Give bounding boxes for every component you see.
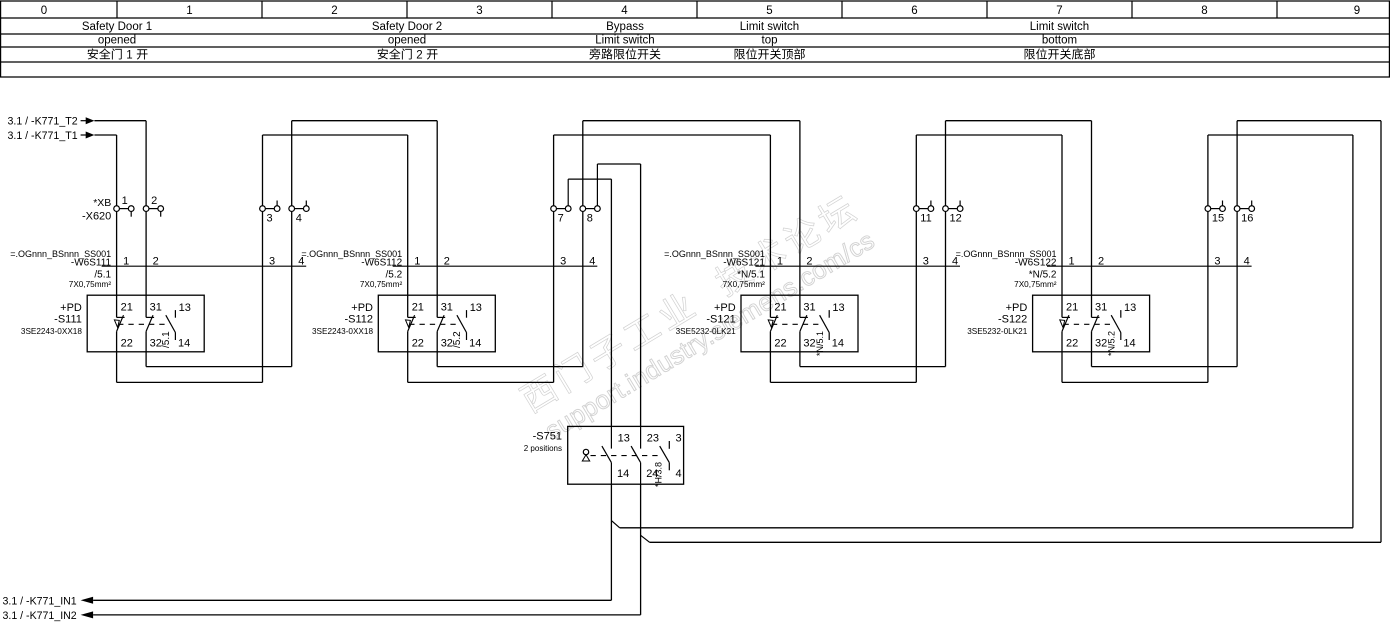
switch S111 linkage [118, 323, 170, 325]
S751 NO contact 23-24 [640, 426, 642, 448]
wire S111 return 3 vertical [262, 135, 264, 382]
junction jog IN2 [641, 535, 650, 542]
wire T2 chain link 2 [583, 120, 800, 122]
svg-text:/5.1: /5.1 [94, 270, 111, 281]
svg-text:8: 8 [1201, 5, 1207, 17]
svg-text:+PD: +PD [60, 302, 82, 314]
svg-text:4: 4 [296, 213, 302, 225]
svg-text:1: 1 [126, 50, 132, 62]
junction jog IN1 [611, 521, 619, 528]
svg-text:*N/5.1: *N/5.1 [737, 270, 765, 281]
wire T1 return bottom [620, 527, 1353, 529]
wire S112 return 4 vertical [582, 121, 584, 367]
wire S112 input 2 vertical [436, 121, 438, 296]
svg-text:22: 22 [412, 337, 424, 349]
svg-text:2: 2 [416, 50, 422, 62]
svg-text:bottom: bottom [1042, 35, 1077, 47]
switch S122 NC contact 31-32 [1091, 295, 1093, 317]
svg-text:3.1 / -K771_IN2: 3.1 / -K771_IN2 [3, 610, 77, 622]
svg-text:Bypass: Bypass [606, 21, 644, 33]
svg-text:-S112: -S112 [344, 314, 373, 326]
svg-text:3: 3 [1214, 255, 1220, 267]
svg-text:Limit switch: Limit switch [740, 21, 799, 33]
svg-text:22: 22 [774, 337, 786, 349]
wire S112 return 3 vertical [553, 135, 555, 382]
wire T2 to S111.2 [94, 120, 146, 122]
wire S111 bottom link 22-to-3 [117, 381, 263, 383]
svg-text:opened: opened [98, 35, 136, 47]
svg-text:/5.2: /5.2 [452, 331, 463, 348]
watermark [517, 191, 879, 447]
header column dividers [116, 1, 118, 18]
svg-text:1: 1 [123, 255, 129, 267]
wire S121 bottom link 22-to-3 [770, 381, 916, 383]
svg-text:31: 31 [1095, 302, 1107, 314]
svg-text:*H/3.8: *H/3.8 [654, 462, 664, 487]
wire S121 input 1 vertical [769, 135, 771, 295]
wire T1 chain link 2 [554, 134, 771, 136]
svg-text:21: 21 [121, 302, 133, 314]
svg-text:top: top [762, 35, 778, 47]
svg-text:-S751: -S751 [533, 431, 562, 443]
svg-text:-W6S121: -W6S121 [723, 257, 765, 268]
wire T1 chain link 1 [263, 134, 408, 136]
terminal X620 pin 15 [1205, 206, 1211, 212]
wire pin7 tap to S751.13 [610, 179, 612, 426]
wire S121 return 3 vertical [915, 135, 917, 382]
wire S111 bottom link 32-to-4 [146, 366, 292, 368]
svg-text:21: 21 [774, 302, 786, 314]
arrow IN2 [81, 611, 94, 618]
svg-text:3.1 / -K771_T2: 3.1 / -K771_T2 [8, 116, 78, 128]
wire S121 contact 22 exit [769, 352, 771, 383]
svg-text:5: 5 [766, 5, 772, 17]
wire T1 to S111.1 [94, 134, 116, 136]
header cn limit switch bottom [1025, 48, 1095, 59]
svg-text:7X0,75mm²: 7X0,75mm² [1014, 280, 1057, 289]
svg-text:11: 11 [920, 213, 931, 225]
svg-text:4: 4 [1244, 255, 1250, 267]
svg-text:3SE5232-0LK21: 3SE5232-0LK21 [676, 327, 737, 336]
svg-text:14: 14 [1123, 337, 1135, 349]
svg-text:22: 22 [121, 337, 133, 349]
terminal X620 pin 2 [143, 206, 149, 212]
svg-text:0: 0 [41, 5, 47, 17]
wire IN1 [93, 599, 611, 601]
svg-text:*XB: *XB [93, 197, 111, 209]
svg-text:21: 21 [1066, 302, 1078, 314]
cable W6S112 [393, 265, 598, 267]
svg-text:*N/5.2: *N/5.2 [1029, 270, 1057, 281]
svg-text:3: 3 [560, 255, 566, 267]
svg-text:4: 4 [676, 468, 682, 480]
svg-text:6: 6 [911, 5, 917, 17]
switch S122 NO contact 13-14 [1120, 310, 1122, 318]
svg-text:1: 1 [186, 5, 192, 17]
switch S122 box [1033, 295, 1150, 352]
svg-text:2: 2 [1098, 255, 1104, 267]
svg-text:13: 13 [832, 302, 844, 314]
header cn bypass limit switch [589, 48, 660, 59]
svg-text:14: 14 [469, 337, 481, 349]
wire S111 contact 22 exit [116, 352, 118, 383]
wire S121 input 2 vertical [799, 121, 801, 296]
svg-text:3SE5232-0LK21: 3SE5232-0LK21 [967, 327, 1028, 336]
wire S121 contact 32 exit [799, 352, 801, 367]
svg-text:1: 1 [122, 195, 128, 207]
svg-text:3.1 / -K771_T1: 3.1 / -K771_T1 [8, 130, 78, 142]
switch S122 linkage [1064, 323, 1116, 325]
title block header grid [0, 0, 1390, 2]
wire IN2 [93, 614, 641, 616]
svg-text:4: 4 [621, 5, 628, 17]
wire S111 input 2 vertical [145, 121, 147, 296]
svg-text:13: 13 [470, 302, 482, 314]
terminal X620 pin 11 [913, 206, 919, 212]
svg-text:+PD: +PD [714, 302, 736, 314]
svg-text:14: 14 [178, 337, 190, 349]
S751 NO contact 13-14 [610, 426, 612, 448]
svg-text:13: 13 [618, 433, 630, 445]
wire S122 bottom link 22-to-3 [1062, 381, 1208, 383]
wire S751.24 down to IN2 [640, 484, 642, 615]
wire T2 chain link 3 [946, 120, 1092, 122]
wire pin8 tap to S751.23 [640, 164, 642, 426]
svg-text:3: 3 [269, 255, 275, 267]
svg-text:13: 13 [179, 302, 191, 314]
wire T2 chain link 1 [292, 120, 438, 122]
wire S111 contact 32 exit [145, 352, 147, 367]
svg-text:2: 2 [153, 255, 159, 267]
S751 NO contact 3-4 [668, 441, 670, 449]
svg-text:21: 21 [412, 302, 424, 314]
svg-text:2 positions: 2 positions [524, 444, 562, 453]
terminal X620 pin 4 [289, 206, 295, 212]
svg-text:-X620: -X620 [82, 211, 111, 223]
wire T1 return right vertical [1352, 135, 1354, 528]
switch S112 NC contact 21-22 [407, 295, 409, 317]
svg-text:3: 3 [923, 255, 929, 267]
S751 selector actuator [583, 449, 588, 454]
wire T1 return top [1208, 134, 1353, 136]
svg-text:+PD: +PD [351, 302, 373, 314]
svg-text:+PD: +PD [1006, 302, 1028, 314]
svg-text:-S111: -S111 [54, 314, 82, 326]
wire S122 input 2 vertical [1091, 121, 1093, 296]
switch S121 NC contact 21-22 [769, 295, 771, 317]
svg-text:1: 1 [1069, 255, 1075, 267]
svg-text:32: 32 [150, 337, 162, 349]
switch S112 linkage [409, 323, 461, 325]
wire S112 bottom link 32-to-4 [437, 366, 583, 368]
svg-text:Safety Door 1: Safety Door 1 [82, 21, 152, 33]
svg-text:16: 16 [1241, 213, 1253, 225]
svg-text:32: 32 [441, 337, 453, 349]
arrow T2 [86, 117, 95, 124]
arrow T1 [86, 132, 95, 139]
svg-text:31: 31 [441, 302, 453, 314]
cable W6S122 [1047, 265, 1252, 267]
svg-text:1: 1 [777, 255, 783, 267]
switch S121 NO contact 13-14 [828, 310, 830, 318]
svg-text:3.1 / -K771_IN1: 3.1 / -K771_IN1 [3, 596, 77, 608]
svg-text:31: 31 [803, 302, 815, 314]
svg-text:1: 1 [414, 255, 420, 267]
svg-text:22: 22 [1066, 337, 1078, 349]
header cn limit switch top [735, 48, 805, 59]
svg-text:7X0,75mm²: 7X0,75mm² [723, 280, 766, 289]
wire S122 return 4 vertical [1236, 121, 1238, 367]
svg-text:7: 7 [558, 213, 564, 225]
cable W6S111 [102, 265, 307, 267]
switch S111 NO contact 13-14 [174, 310, 176, 318]
wire T2 return top [1237, 120, 1381, 122]
svg-text:2: 2 [806, 255, 812, 267]
switch S112 NO contact 13-14 [466, 310, 468, 318]
terminal X620 pin 12 [943, 206, 949, 212]
svg-text:3: 3 [476, 5, 482, 17]
wire T2 return right vertical [1380, 121, 1382, 543]
switch S121 linkage [772, 323, 824, 325]
svg-text:*N/5.1: *N/5.1 [815, 331, 825, 356]
svg-text:-W6S122: -W6S122 [1015, 257, 1057, 268]
terminal X620 pin 3 [260, 206, 266, 212]
terminal X620 pin 1 [114, 206, 120, 212]
svg-text:23: 23 [647, 433, 659, 445]
wire S121 bottom link 32-to-4 [800, 366, 946, 368]
wire S112 contact 22 exit [407, 352, 409, 383]
wire S122 bottom link 32-to-4 [1092, 366, 1238, 368]
svg-text:-S122: -S122 [998, 314, 1027, 326]
switch S111 NC contact 31-32 [145, 295, 147, 317]
terminal X620 pin 16 [1234, 206, 1240, 212]
switch S111 box [87, 295, 204, 352]
svg-text:14: 14 [832, 337, 844, 349]
svg-text:/5.2: /5.2 [386, 270, 403, 281]
svg-text:-W6S111: -W6S111 [71, 257, 112, 268]
arrow IN1 [81, 597, 94, 604]
svg-text:*N/5.2: *N/5.2 [1107, 331, 1117, 356]
svg-text:4: 4 [589, 255, 595, 267]
svg-text:Limit switch: Limit switch [1030, 21, 1089, 33]
svg-text:3: 3 [267, 213, 273, 225]
svg-text:-S121: -S121 [706, 314, 735, 326]
svg-text:opened: opened [388, 35, 426, 47]
svg-text:9: 9 [1354, 5, 1360, 17]
wire S122 contact 22 exit [1061, 352, 1063, 383]
switch S112 NC contact 31-32 [436, 295, 438, 317]
svg-text:13: 13 [1124, 302, 1136, 314]
svg-text:32: 32 [1095, 337, 1107, 349]
S751 linkage [591, 455, 661, 457]
wire S122 input 1 vertical [1061, 135, 1063, 295]
wire S112 input 1 vertical [407, 135, 409, 295]
wire S122 return 3 vertical [1207, 135, 1209, 382]
switch S121 NC contact 31-32 [799, 295, 801, 317]
switch S121 box [741, 295, 858, 352]
svg-text:2: 2 [151, 195, 157, 207]
svg-text:Limit switch: Limit switch [595, 35, 654, 47]
wire S111 input 1 vertical [116, 135, 118, 295]
svg-text:7X0,75mm²: 7X0,75mm² [69, 280, 112, 289]
wire S751.14 down to IN1 [610, 484, 612, 600]
terminal X620 pin 7 [551, 206, 557, 212]
wire S112 bottom link 22-to-3 [408, 381, 554, 383]
svg-text:7: 7 [1056, 5, 1062, 17]
svg-text:12: 12 [950, 213, 962, 225]
switch S111 NC contact 21-22 [116, 295, 118, 317]
wire T2 return bottom [650, 541, 1381, 543]
svg-text:8: 8 [587, 213, 593, 225]
svg-text:31: 31 [150, 302, 162, 314]
svg-text:2: 2 [444, 255, 450, 267]
svg-text:/5.1: /5.1 [161, 331, 172, 348]
svg-text:7X0,75mm²: 7X0,75mm² [360, 280, 403, 289]
switch S112 box [378, 295, 495, 352]
svg-text:32: 32 [803, 337, 815, 349]
terminal X620 pin 8 [580, 206, 586, 212]
header cn safety door 1 [88, 48, 148, 61]
wire T1 chain link 3 [916, 134, 1062, 136]
svg-text:2: 2 [331, 5, 337, 17]
svg-text:3: 3 [676, 433, 682, 445]
svg-text:14: 14 [617, 468, 629, 480]
svg-text:Safety Door 2: Safety Door 2 [372, 21, 442, 33]
switch S122 NC contact 21-22 [1061, 295, 1063, 317]
svg-text:-W6S112: -W6S112 [361, 257, 402, 268]
wire S111 return 4 vertical [291, 121, 293, 367]
cable W6S121 [755, 265, 960, 267]
header cn safety door 2 [378, 48, 438, 61]
svg-text:15: 15 [1212, 213, 1224, 225]
svg-text:3SE2243-0XX18: 3SE2243-0XX18 [21, 327, 82, 336]
wire S112 contact 32 exit [436, 352, 438, 367]
wire S121 return 4 vertical [945, 121, 947, 367]
wire S122 contact 32 exit [1091, 352, 1093, 367]
svg-text:3SE2243-0XX18: 3SE2243-0XX18 [312, 327, 373, 336]
